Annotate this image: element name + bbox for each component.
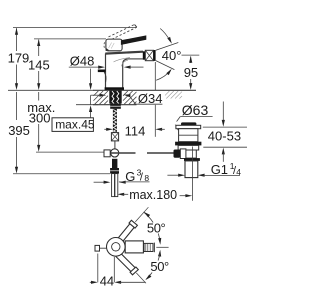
svg-text:395: 395 [8, 123, 30, 138]
svg-text:Ø34: Ø34 [138, 91, 163, 106]
svg-text:50°: 50° [147, 221, 166, 236]
svg-text:max.180: max.180 [129, 188, 177, 202]
svg-text:179: 179 [8, 51, 30, 66]
svg-text:40-53: 40-53 [208, 128, 241, 143]
svg-text:G1: G1 [211, 162, 228, 177]
svg-text:50°: 50° [150, 259, 169, 274]
svg-text:Ø48: Ø48 [70, 54, 95, 69]
svg-text:145: 145 [28, 57, 50, 72]
svg-text:95: 95 [184, 65, 198, 80]
svg-text:44: 44 [100, 273, 114, 288]
svg-text:max.45: max.45 [55, 117, 95, 131]
svg-text:114: 114 [125, 123, 146, 138]
svg-text:4: 4 [236, 167, 241, 177]
svg-text:40°: 40° [162, 48, 182, 63]
svg-text:8: 8 [144, 173, 149, 183]
svg-text:G: G [125, 169, 135, 184]
svg-text:300: 300 [29, 110, 51, 125]
svg-text:Ø63: Ø63 [182, 102, 209, 118]
